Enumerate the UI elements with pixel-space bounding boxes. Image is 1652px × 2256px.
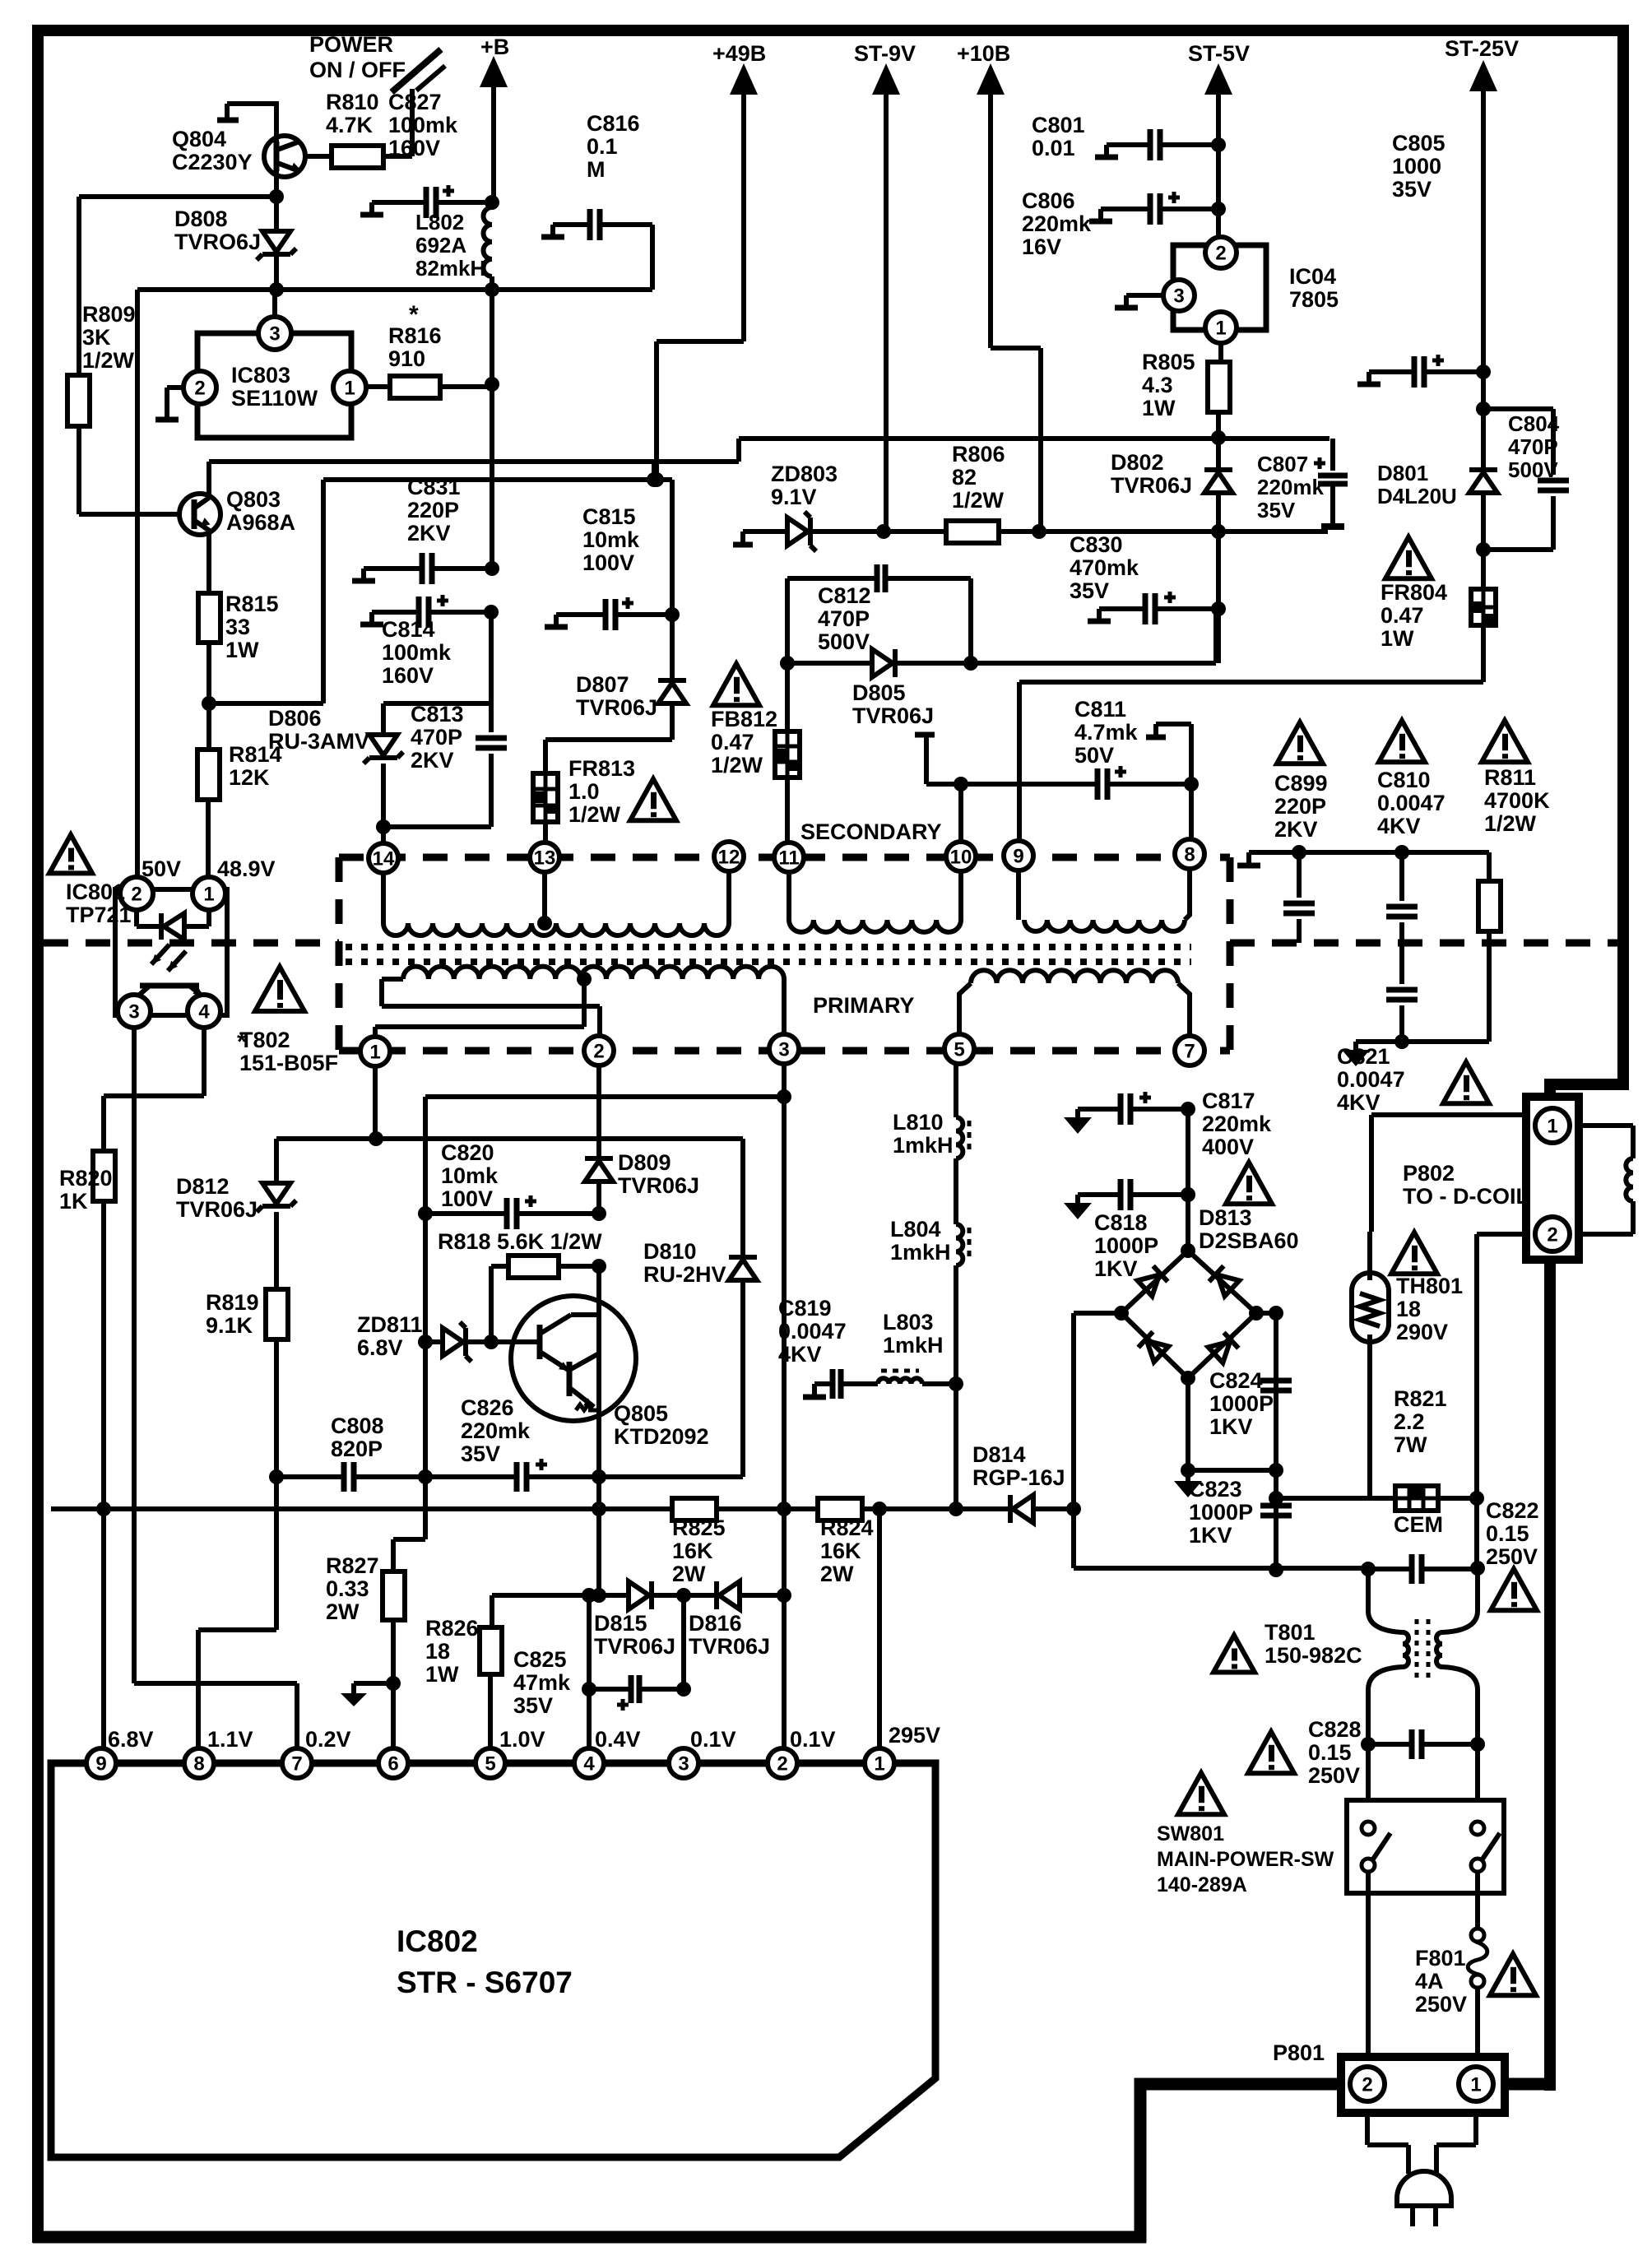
wire bus between R825 and R824 — [717, 1506, 818, 1511]
svg-text:1000P: 1000P — [1209, 1391, 1274, 1416]
svg-text:D808: D808 — [174, 207, 228, 231]
wire D808 to node — [274, 254, 279, 290]
optocoupler IC801 box — [115, 889, 227, 1015]
transformer pin 11 — [774, 843, 804, 872]
svg-text:18: 18 — [425, 1639, 450, 1664]
svg-text:1000P: 1000P — [1094, 1233, 1158, 1258]
svg-text:1: 1 — [1547, 1115, 1557, 1137]
wire AC line y1907 — [1074, 1566, 1368, 1571]
svg-text:4A: 4A — [1415, 1969, 1444, 1994]
transformer pin 5 — [944, 1034, 974, 1064]
svg-text:Q805: Q805 — [614, 1401, 668, 1426]
svg-text:C831: C831 — [407, 475, 461, 499]
svg-text:692A: 692A — [415, 233, 466, 258]
svg-text:ST-25V: ST-25V — [1445, 36, 1519, 61]
svg-text:C813: C813 — [411, 702, 464, 726]
winding secondary 11-10 — [787, 872, 791, 920]
transformer pin 13 — [530, 843, 559, 872]
wire D815 to D816 — [652, 1593, 717, 1598]
ic IC802 outline — [51, 1763, 935, 2157]
svg-text:100V: 100V — [582, 550, 634, 575]
wire bridge top feed — [1186, 1109, 1190, 1251]
svg-text:C899: C899 — [1274, 771, 1328, 796]
svg-text:R827: R827 — [326, 1553, 379, 1578]
svg-text:C804: C804 — [1508, 411, 1560, 436]
node ST-25V/C804 top — [1476, 402, 1491, 416]
ic IC802 pin 4 — [574, 1748, 604, 1778]
svg-text:SECONDARY: SECONDARY — [800, 819, 942, 844]
svg-text:STR - S6707: STR - S6707 — [397, 1966, 573, 1999]
svg-text:FR813: FR813 — [568, 756, 635, 781]
svg-text:0.15: 0.15 — [1486, 1521, 1529, 1546]
transformer pin 12 — [714, 842, 744, 871]
svg-text:1.0: 1.0 — [568, 779, 600, 804]
wire L804 down to L803 node — [954, 1265, 958, 1509]
svg-text:R825: R825 — [672, 1516, 726, 1540]
resistor R805 — [1208, 362, 1230, 412]
svg-text:6.8V: 6.8V — [357, 1335, 403, 1360]
svg-text:910: 910 — [388, 346, 425, 371]
resistor R820 — [93, 1151, 115, 1201]
svg-text:D807: D807 — [576, 672, 629, 697]
svg-text:0.0047: 0.0047 — [778, 1319, 847, 1344]
svg-text:ST-9V: ST-9V — [854, 41, 916, 66]
ic IC801 pin 1 — [193, 877, 225, 910]
inductor L803 — [878, 1378, 922, 1384]
deflection coil at P802 — [1579, 1126, 1633, 1158]
transformer pin 14 — [369, 843, 398, 873]
wire left rail down to IC801 pin2 — [135, 290, 140, 878]
resistor R819 — [266, 1289, 288, 1339]
svg-text:50V: 50V — [142, 856, 181, 881]
svg-text:ST-5V: ST-5V — [1188, 41, 1250, 66]
svg-text:35V: 35V — [461, 1441, 500, 1466]
border frame right of P801 to right border — [1503, 2078, 1555, 2091]
diode D802 — [1216, 439, 1221, 470]
svg-text:9.1V: 9.1V — [771, 485, 817, 509]
resistor R821 CEM — [1276, 1496, 1395, 1501]
svg-text:C2230Y: C2230Y — [172, 150, 253, 174]
svg-text:7805: 7805 — [1289, 287, 1339, 312]
wire C811 to transformer pin 8 — [1189, 784, 1194, 839]
svg-text:C824: C824 — [1209, 1368, 1263, 1393]
wire +B down to C831/C814 — [490, 290, 494, 569]
warning triangle near C821 — [1443, 1062, 1489, 1103]
wire D816 to pin2 chain — [740, 1593, 784, 1598]
wire D802 node to C807 — [1218, 529, 1328, 534]
svg-text:3: 3 — [1173, 285, 1184, 307]
svg-text:0.33: 0.33 — [326, 1576, 369, 1601]
svg-text:R805: R805 — [1142, 350, 1195, 374]
diode D801 — [1481, 409, 1486, 470]
wire IC802 pin1 up to bus — [877, 1509, 882, 1748]
svg-text:4700K: 4700K — [1484, 788, 1550, 813]
svg-text:D805: D805 — [852, 680, 906, 705]
svg-text:TVR06J: TVR06J — [576, 695, 657, 720]
ic IC803 pin 1 — [333, 371, 366, 404]
svg-text:8: 8 — [193, 1752, 204, 1775]
svg-text:1KV: 1KV — [1094, 1256, 1138, 1281]
svg-text:FR804: FR804 — [1381, 580, 1447, 605]
svg-text:2: 2 — [1362, 2073, 1372, 2096]
capacitor C899 — [1292, 845, 1306, 860]
svg-text:500V: 500V — [818, 629, 870, 654]
svg-text:2: 2 — [593, 1040, 604, 1062]
wire base bus left — [79, 194, 276, 199]
svg-text:220P: 220P — [407, 498, 459, 522]
connector P802 box — [1526, 1097, 1579, 1260]
svg-text:8: 8 — [1184, 843, 1195, 866]
svg-text:50V: 50V — [1074, 743, 1114, 768]
bridge diode top-right — [1209, 1266, 1240, 1297]
ic IC802 pin 3 — [669, 1748, 698, 1778]
svg-text:12: 12 — [718, 846, 740, 868]
svg-text:TVRO6J: TVRO6J — [174, 230, 261, 254]
fusible resistor FR804 — [1481, 550, 1486, 589]
wire IC801 pin3 down — [132, 1027, 137, 1683]
svg-text:C818: C818 — [1094, 1210, 1148, 1235]
wire SW801 to P801 pin2 — [1366, 1872, 1371, 2057]
power rail +B arrow — [480, 56, 508, 87]
capacitor C813 — [489, 703, 494, 732]
node transformer pin1 to snubber line — [369, 1131, 383, 1146]
transformer pin 1 — [360, 1037, 390, 1066]
wire Q805 collector through — [596, 1266, 601, 1477]
wire pin13 center tap — [542, 872, 547, 923]
svg-text:FB812: FB812 — [711, 707, 777, 731]
wire R815 to R814 — [206, 643, 211, 750]
power rail +10B arrow — [977, 63, 1005, 95]
capacitor C818 — [1078, 1192, 1120, 1197]
svg-text:+B: +B — [480, 35, 509, 59]
svg-text:2: 2 — [131, 883, 142, 905]
svg-text:POWER: POWER — [309, 32, 393, 57]
wire IC801 pin4 down and left — [104, 1027, 204, 1151]
ic IC803 box — [197, 333, 351, 438]
svg-text:4: 4 — [583, 1752, 595, 1775]
border frame bottom — [33, 2231, 1146, 2244]
svg-text:C820: C820 — [441, 1140, 494, 1165]
connector P801 pin 2 — [1350, 2067, 1385, 2101]
wire step to y533 — [739, 439, 1329, 462]
svg-text:L804: L804 — [890, 1217, 941, 1242]
svg-text:3: 3 — [269, 323, 280, 345]
svg-text:4KV: 4KV — [1377, 814, 1421, 838]
svg-text:0.4V: 0.4V — [595, 1727, 641, 1752]
svg-text:KTD2092: KTD2092 — [614, 1424, 709, 1449]
svg-text:D4L20U: D4L20U — [1377, 484, 1457, 508]
svg-text:C815: C815 — [582, 504, 636, 529]
svg-text:12K: 12K — [229, 765, 270, 790]
wire IC803 pin1 to R816 — [366, 384, 390, 389]
wire drain bus down to IC802 pin2 — [782, 1509, 787, 1748]
svg-text:14: 14 — [373, 847, 395, 870]
diode D808 — [262, 231, 290, 252]
svg-text:1W: 1W — [225, 638, 259, 662]
ground at R827 — [354, 1683, 393, 1693]
ground stub left of top line — [1246, 852, 1251, 864]
svg-text:C823: C823 — [1189, 1477, 1242, 1502]
capacitor C817 — [1078, 1107, 1120, 1112]
bridge rectifier D813 diamond — [1121, 1251, 1256, 1378]
svg-text:R821: R821 — [1394, 1386, 1447, 1411]
wire C821 node to P802 pin1 line — [1371, 1112, 1526, 1117]
capacitor C823 — [1260, 1503, 1292, 1509]
warning triangle near F801 — [1490, 1954, 1536, 1995]
warning triangle near D813 — [1226, 1163, 1272, 1204]
svg-text:3: 3 — [778, 1038, 789, 1061]
svg-text:D810: D810 — [643, 1239, 697, 1264]
svg-text:RGP-16J: RGP-16J — [972, 1465, 1065, 1490]
wire ZD-chain jog to pin8 — [198, 1477, 276, 1748]
svg-text:R815: R815 — [225, 592, 279, 616]
svg-text:33: 33 — [225, 615, 250, 639]
wire ZD811 node down to R827 jog — [393, 1477, 425, 1539]
svg-text:P802: P802 — [1403, 1161, 1455, 1186]
svg-text:7: 7 — [1184, 1040, 1195, 1062]
svg-text:Q804: Q804 — [172, 127, 226, 151]
svg-text:2W: 2W — [672, 1562, 706, 1586]
svg-text:C826: C826 — [461, 1395, 514, 1420]
svg-text:1W: 1W — [1381, 626, 1414, 651]
svg-text:ZD803: ZD803 — [771, 462, 838, 486]
svg-text:F801: F801 — [1415, 1946, 1466, 1971]
capacitor C831 — [364, 566, 421, 571]
diode D809 — [585, 1156, 613, 1161]
svg-text:D801: D801 — [1377, 461, 1428, 485]
ic IC802 pin 1 — [865, 1748, 894, 1778]
svg-text:295V: 295V — [889, 1723, 940, 1748]
diode D812 — [274, 1139, 279, 1183]
wire R816 to +B rail — [440, 384, 492, 389]
svg-text:140-289A: 140-289A — [1157, 1873, 1247, 1896]
fusible resistor FR813 — [533, 773, 558, 822]
svg-text:2: 2 — [777, 1752, 787, 1775]
node +49B at y583 — [649, 472, 664, 487]
wire D808 node to IC803 pin3 — [272, 290, 277, 318]
svg-text:2: 2 — [1215, 242, 1226, 264]
ferrite bead FB812 — [785, 663, 790, 731]
warning triangle near T802 — [255, 967, 304, 1011]
svg-text:150-982C: 150-982C — [1265, 1643, 1362, 1668]
connector P802 pin 1 — [1535, 1108, 1570, 1143]
resistor R810 — [332, 146, 383, 168]
transformer pin 9 — [1004, 841, 1033, 870]
connector P801 pin 1 — [1459, 2067, 1493, 2101]
ic IC802 pin 6 — [378, 1748, 408, 1778]
resistor R816 — [390, 376, 440, 398]
warning triangle near TH801 — [1391, 1232, 1437, 1274]
capacitor C825 — [587, 1595, 592, 1689]
svg-text:0.47: 0.47 — [711, 730, 754, 754]
svg-text:IC04: IC04 — [1289, 264, 1336, 289]
svg-text:7W: 7W — [1394, 1432, 1427, 1457]
ground arrow at C821 — [1356, 1039, 1402, 1044]
capacitor C821 — [1386, 987, 1418, 993]
switch SW801 left pole — [1362, 1822, 1375, 1835]
svg-text:11: 11 — [778, 847, 799, 869]
node main 48V line — [269, 282, 284, 297]
svg-text:10: 10 — [950, 846, 972, 868]
node bus junctions — [592, 1502, 606, 1516]
warning triangle near T801 — [1213, 1636, 1255, 1673]
wire R805 to line533 — [1216, 412, 1221, 439]
wire gate line from drain node — [596, 1509, 601, 1595]
isolation dashed line left — [44, 940, 339, 947]
winding primary 5-7 — [971, 970, 1178, 983]
svg-text:R809: R809 — [82, 302, 136, 327]
svg-text:0.0047: 0.0047 — [1377, 791, 1445, 815]
svg-text:D814: D814 — [972, 1442, 1026, 1467]
svg-text:SE110W: SE110W — [231, 386, 318, 411]
svg-text:C806: C806 — [1022, 188, 1075, 213]
svg-text:0.01: 0.01 — [1032, 136, 1075, 160]
resistor R826 — [490, 1595, 494, 1627]
svg-text:220mk: 220mk — [461, 1418, 531, 1443]
bridge diode bottom-right — [1209, 1333, 1239, 1363]
svg-text:1W: 1W — [425, 1662, 459, 1687]
transformer T801 — [1368, 1611, 1403, 1632]
svg-text:2W: 2W — [820, 1562, 854, 1586]
svg-text:R810: R810 — [326, 90, 379, 114]
ground stub at IC803 pin2 — [167, 388, 183, 418]
svg-text:2W: 2W — [326, 1599, 360, 1624]
transformer pin 10 — [946, 842, 976, 871]
svg-text:1000: 1000 — [1392, 154, 1441, 179]
svg-text:0.2V: 0.2V — [305, 1727, 351, 1752]
capacitor C810 — [1394, 845, 1409, 860]
svg-text:C828: C828 — [1308, 1717, 1362, 1742]
resistor R827 — [391, 1539, 396, 1571]
wire F801 to P801 pin1 — [1475, 1988, 1480, 2057]
diode D814 — [1008, 1495, 1013, 1523]
svg-text:1: 1 — [203, 883, 214, 905]
transformer pin 3 — [769, 1034, 799, 1064]
svg-text:L810: L810 — [893, 1110, 944, 1135]
svg-text:R824: R824 — [820, 1516, 874, 1540]
snubber box top edge — [383, 701, 491, 706]
svg-text:A968A: A968A — [226, 510, 295, 535]
svg-text:1mkH: 1mkH — [893, 1133, 954, 1158]
warning triangle near C828 — [1248, 1732, 1294, 1773]
svg-text:250V: 250V — [1486, 1544, 1538, 1569]
ic IC801 pin 4 — [188, 995, 220, 1028]
svg-text:0.15: 0.15 — [1308, 1740, 1352, 1765]
svg-text:CEM: CEM — [1394, 1512, 1443, 1537]
svg-text:R826: R826 — [425, 1616, 479, 1641]
wire regulated line y561 — [209, 459, 739, 464]
svg-text:C819: C819 — [778, 1296, 832, 1321]
ic IC04 pin 1 — [1205, 312, 1237, 343]
svg-text:250V: 250V — [1308, 1763, 1360, 1788]
winding secondary 9-8 — [1016, 870, 1021, 920]
open stub above Q804 — [227, 104, 276, 142]
svg-text:220mk: 220mk — [1257, 475, 1324, 499]
svg-text:L802: L802 — [415, 210, 464, 234]
svg-text:82mkH: 82mkH — [415, 256, 485, 281]
ic IC04 pin 3 — [1163, 280, 1195, 311]
capacitor C801 — [1107, 142, 1149, 147]
node Q804-D808 — [269, 189, 284, 204]
svg-text:35V: 35V — [1070, 578, 1109, 603]
wire C822 line down to T801 — [1368, 1568, 1478, 1611]
resistor R814 — [197, 750, 220, 800]
wire L810 to L804 — [954, 1158, 958, 1224]
svg-text:47mk: 47mk — [513, 1670, 571, 1695]
svg-text:10mk: 10mk — [582, 527, 640, 552]
wire bus R824 to D814 — [862, 1506, 1010, 1511]
transformer pin 7 — [1175, 1036, 1204, 1065]
ic IC04 box — [1173, 245, 1266, 330]
border frame bottom-right jog up to P801 — [1140, 2084, 1343, 2243]
ic IC803 pin 2 — [183, 371, 216, 404]
svg-text:TVR06J: TVR06J — [618, 1173, 699, 1198]
wire 48V horizontal line — [137, 287, 652, 292]
capacitor C804 branch — [1483, 409, 1553, 475]
power rail ST-5V arrow — [1204, 63, 1232, 95]
svg-text:C805: C805 — [1392, 131, 1445, 156]
border frame left — [32, 25, 44, 2243]
warning triangle near FR804 — [1385, 537, 1432, 578]
svg-text:160V: 160V — [382, 663, 434, 688]
svg-text:T802: T802 — [239, 1028, 290, 1052]
wire +10B node to D802 node — [1039, 529, 1218, 534]
wire y583 corner down — [670, 480, 675, 615]
svg-text:1K: 1K — [59, 1189, 88, 1214]
warning triangle above C810 — [1379, 721, 1425, 762]
capacitor C824 — [1260, 1378, 1292, 1384]
svg-text:1: 1 — [874, 1752, 884, 1775]
ac plug symbol — [1397, 2171, 1451, 2206]
power rail ST-9V arrow — [872, 63, 900, 95]
diode D816 — [714, 1581, 719, 1609]
wire D809 chain down to bus — [596, 1477, 601, 1509]
resistor R806 — [946, 521, 999, 543]
svg-text:C825: C825 — [513, 1647, 567, 1672]
svg-text:470P: 470P — [818, 606, 870, 631]
svg-text:D816: D816 — [689, 1611, 742, 1636]
svg-text:1W: 1W — [1142, 396, 1176, 420]
capacitor C819 — [812, 1384, 817, 1395]
warning triangle near FB812 — [713, 664, 759, 705]
svg-text:1: 1 — [1215, 317, 1226, 339]
inductor L802 — [484, 207, 493, 276]
svg-text:1: 1 — [1470, 2073, 1481, 2096]
svg-text:R811: R811 — [1484, 765, 1536, 790]
node R815/R814 junction — [202, 696, 216, 711]
capacitor C820 — [418, 1206, 433, 1221]
svg-text:5: 5 — [954, 1038, 964, 1061]
resistor R825 — [672, 1498, 717, 1520]
svg-text:9: 9 — [95, 1752, 106, 1775]
resistor R811 — [1487, 852, 1492, 881]
wire R820 down to bus — [101, 1201, 106, 1509]
ic IC802 pin 9 — [86, 1748, 116, 1778]
wire gate line left to R826 — [492, 1593, 629, 1598]
border frame right upper segment — [1617, 25, 1629, 1090]
svg-text:4.3: 4.3 — [1142, 373, 1173, 397]
warning triangle near C822 — [1491, 1569, 1537, 1610]
inductor L810 — [956, 1117, 963, 1158]
transistor Q805 darlington — [511, 1296, 636, 1421]
resistor R815 — [198, 593, 220, 643]
winding primary 1-3 — [403, 967, 784, 979]
svg-text:151-B05F: 151-B05F — [239, 1051, 338, 1075]
ic IC802 pin 7 — [282, 1748, 312, 1778]
wire Q804 collector down to D808 — [274, 171, 279, 231]
svg-text:D815: D815 — [594, 1611, 647, 1636]
svg-text:T801: T801 — [1265, 1620, 1316, 1645]
